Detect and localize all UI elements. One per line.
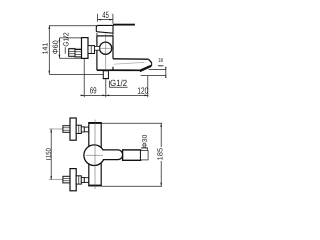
inlet centre line (horizontal) xyxy=(69,47,112,49)
value label 185 xyxy=(157,148,162,160)
body circle (cartridge dome) xyxy=(100,42,112,54)
spout (side) xyxy=(113,58,148,60)
union connector to body xyxy=(88,46,95,54)
body centre line (vertical) xyxy=(105,34,107,71)
bottom wall union (plan): nut xyxy=(63,176,70,183)
spout inner line (faint) xyxy=(114,62,145,64)
value label 45 xyxy=(102,12,108,18)
top union connector xyxy=(76,125,81,133)
spout aerator (plan, thin section) xyxy=(141,151,149,160)
value label G1/2 (outlet) xyxy=(110,79,126,86)
outlet stub G1/2 xyxy=(103,71,108,79)
spout centre line (plan, horizontal) xyxy=(86,154,147,156)
dimension Phi60 (flange diameter) xyxy=(59,38,81,58)
lever handle cap xyxy=(96,25,113,33)
top wall flange xyxy=(70,118,76,140)
top inlet centre line xyxy=(49,128,96,130)
value label 18 xyxy=(158,58,162,62)
cartridge dome circle (plan) xyxy=(84,145,105,166)
value label G1/2 (wall) xyxy=(63,33,68,47)
wall union: G1/2 threaded tail xyxy=(69,49,75,57)
value label Φ60 xyxy=(53,41,58,54)
cartridge neck xyxy=(97,33,113,36)
dimension 185 (overall length, plan) xyxy=(102,123,163,186)
faucet body (side) xyxy=(97,36,113,70)
value label 120 xyxy=(138,87,148,93)
spout (plan, thick section) xyxy=(123,150,141,160)
dimension 45 (handle cap width) xyxy=(98,14,113,24)
top wall union (plan): nut xyxy=(63,126,70,133)
lever bar xyxy=(113,24,135,26)
dimension 141 (overall height) xyxy=(49,25,103,74)
lever handle (plan stadium) xyxy=(103,150,123,160)
aerator tip (thick angled face) xyxy=(140,66,152,71)
bottom chained dimensions 69 / 120 xyxy=(81,59,149,97)
bottom inlet centre line xyxy=(49,179,96,181)
bottom wall flange xyxy=(70,169,76,191)
bottom union connector xyxy=(76,176,81,184)
value label Φ30 xyxy=(142,135,147,148)
dimension 150 (inlet centres) xyxy=(50,129,52,180)
faucet body (plan) xyxy=(89,123,101,186)
body + spout bottom edge xyxy=(97,69,140,71)
value label 141 xyxy=(42,43,47,54)
value label 69 xyxy=(90,87,96,93)
wall union: nut xyxy=(75,50,82,57)
G1/2 leader line xyxy=(64,47,66,54)
wall flange (escutcheon, side) xyxy=(82,38,89,59)
body centre line (plan, vertical) xyxy=(94,120,96,190)
value label 150 xyxy=(46,148,51,157)
